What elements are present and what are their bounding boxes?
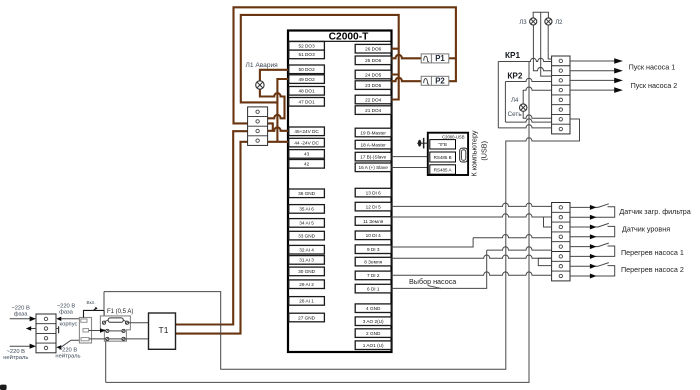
svg-text:6 DI 1: 6 DI 1 xyxy=(367,286,380,291)
svg-text:T1: T1 xyxy=(159,325,169,335)
svg-text:КР1: КР1 xyxy=(505,51,520,60)
svg-text:Перегрев насоса 2: Перегрев насоса 2 xyxy=(621,265,684,274)
svg-text:50 DO2: 50 DO2 xyxy=(299,67,316,72)
svg-text:25 DO6: 25 DO6 xyxy=(365,58,382,63)
svg-text:2 GND: 2 GND xyxy=(366,331,381,336)
svg-text:19 B-Master: 19 B-Master xyxy=(360,130,386,135)
svg-text:фаза: фаза xyxy=(14,311,29,317)
svg-text:24 DO5: 24 DO5 xyxy=(365,72,382,77)
svg-text:32 AI 4: 32 AI 4 xyxy=(299,248,314,253)
svg-text:КР2: КР2 xyxy=(507,72,522,81)
svg-text:18 A-Master: 18 A-Master xyxy=(361,142,387,147)
svg-text:RS485 A: RS485 A xyxy=(434,167,452,172)
svg-text:35 AI 6: 35 AI 6 xyxy=(299,207,314,212)
svg-text:"0"В: "0"В xyxy=(438,142,447,147)
svg-text:8 Земля: 8 Земля xyxy=(364,259,382,264)
svg-text:36 GND: 36 GND xyxy=(298,191,316,196)
svg-text:12 DI 5: 12 DI 5 xyxy=(366,204,382,209)
svg-text:4 GND: 4 GND xyxy=(366,306,381,311)
svg-text:C2000-T: C2000-T xyxy=(329,32,369,43)
svg-text:33 GND: 33 GND xyxy=(298,233,316,238)
svg-text:34 AI 5: 34 AI 5 xyxy=(299,221,314,226)
svg-text:C2000-USB: C2000-USB xyxy=(442,134,465,139)
svg-text:10 DI 4: 10 DI 4 xyxy=(366,233,382,238)
svg-text:К компьютеру: К компьютеру xyxy=(470,130,479,176)
svg-text:52 DO3: 52 DO3 xyxy=(299,44,316,49)
svg-text:23 DO5: 23 DO5 xyxy=(365,83,382,88)
svg-text:30 GND: 30 GND xyxy=(298,269,316,274)
svg-text:корпус: корпус xyxy=(60,321,78,327)
svg-text:44 -24V DC: 44 -24V DC xyxy=(294,140,319,145)
svg-text:Л2: Л2 xyxy=(555,20,563,26)
svg-text:(USB): (USB) xyxy=(480,141,489,161)
svg-text:42: 42 xyxy=(304,162,310,167)
svg-text:21 DO4: 21 DO4 xyxy=(365,108,382,113)
svg-text:P1: P1 xyxy=(435,54,445,63)
svg-text:P2: P2 xyxy=(435,77,445,86)
svg-text:RS485 B: RS485 B xyxy=(434,155,452,160)
svg-text:Л1 Авария: Л1 Авария xyxy=(246,62,279,69)
svg-text:45+24V DC: 45+24V DC xyxy=(294,129,319,134)
svg-text:27 GND: 27 GND xyxy=(298,315,316,320)
svg-text:Сеть: Сеть xyxy=(508,111,523,118)
svg-text:1 AO1 (U): 1 AO1 (U) xyxy=(363,343,384,348)
svg-text:Пуск насоса 2: Пуск насоса 2 xyxy=(631,81,678,90)
svg-text:Л3: Л3 xyxy=(519,20,527,26)
svg-text:31 AI 3: 31 AI 3 xyxy=(299,258,314,263)
svg-text:17 B(-)Slave: 17 B(-)Slave xyxy=(360,154,386,159)
svg-text:22 DO4: 22 DO4 xyxy=(365,97,382,102)
svg-text:Вкл.: Вкл. xyxy=(87,300,96,305)
svg-text:Перегрев насоса 1: Перегрев насоса 1 xyxy=(621,248,684,257)
svg-text:Л4: Л4 xyxy=(511,98,519,104)
svg-text:фаза: фаза xyxy=(59,309,74,315)
svg-text:3 AO 2(U): 3 AO 2(U) xyxy=(363,319,384,324)
svg-text:9 DI 3: 9 DI 3 xyxy=(367,247,380,252)
svg-text:Датчик уровня: Датчик уровня xyxy=(622,225,670,234)
svg-text:7 DI 2: 7 DI 2 xyxy=(367,273,380,278)
svg-text:43: 43 xyxy=(304,152,310,157)
svg-text:28 AI 1: 28 AI 1 xyxy=(299,299,314,304)
svg-text:49 DO2: 49 DO2 xyxy=(299,77,316,82)
svg-text:Пуск насоса 1: Пуск насоса 1 xyxy=(629,63,676,72)
svg-text:48 DO1: 48 DO1 xyxy=(299,89,316,94)
svg-text:Датчик загр. фильтра: Датчик загр. фильтра xyxy=(619,207,690,216)
svg-text:11 Земля: 11 Земля xyxy=(363,219,384,224)
svg-text:51 DO3: 51 DO3 xyxy=(299,52,316,57)
svg-text:F1 (0,5 A): F1 (0,5 A) xyxy=(107,309,133,315)
svg-text:нейтраль: нейтраль xyxy=(3,354,28,361)
svg-text:нейтраль: нейтраль xyxy=(55,352,80,359)
svg-text:16 A (+) Slave: 16 A (+) Slave xyxy=(359,165,389,170)
svg-text:Выбор насоса: Выбор насоса xyxy=(409,277,456,286)
svg-text:47 DO1: 47 DO1 xyxy=(299,100,316,105)
svg-text:29 AI 2: 29 AI 2 xyxy=(299,282,314,287)
svg-text:26 DO6: 26 DO6 xyxy=(365,47,382,52)
svg-text:13 DI 6: 13 DI 6 xyxy=(366,190,382,195)
